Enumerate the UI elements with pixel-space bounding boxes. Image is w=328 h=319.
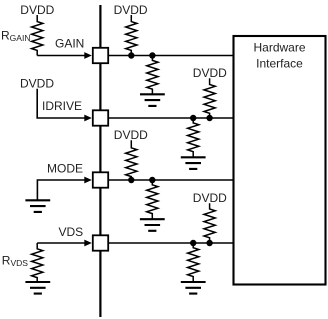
svg-text:RVDS: RVDS	[2, 254, 28, 269]
junction VDS pull-up	[206, 240, 212, 246]
resistor IDRIVE pull-down	[188, 118, 199, 157]
wire IDRIVE to hardware interface	[100, 117, 233, 119]
resistor R_GAIN	[32, 15, 43, 56]
pin box GAIN	[93, 48, 108, 63]
svg-text:DVDD: DVDD	[193, 191, 227, 205]
ground (VDS pull-down)	[181, 282, 206, 294]
wire vertical bus	[99, 5, 101, 317]
junction IDRIVE pull-up	[206, 115, 212, 121]
junction GAIN pull-up	[128, 52, 134, 58]
wire MODE input	[37, 180, 85, 200]
svg-text:RGAIN: RGAIN	[1, 29, 30, 44]
svg-text:DVDD: DVDD	[20, 77, 54, 91]
arrow into GAIN pin	[84, 52, 92, 59]
resistor MODE pull-up	[126, 140, 137, 180]
wire IDRIVE input	[37, 89, 85, 118]
junction IDRIVE pull-down	[190, 115, 196, 121]
svg-text:DVDD: DVDD	[20, 3, 54, 17]
arrow into VDS pin	[84, 240, 92, 247]
resistor GAIN pull-up	[126, 15, 137, 56]
svg-text:DVDD: DVDD	[114, 128, 148, 142]
hardware interface block U1	[234, 36, 326, 285]
svg-text:Hardware: Hardware	[253, 41, 305, 55]
pin box VDS	[93, 235, 108, 250]
ground (GAIN pull-down)	[140, 94, 165, 106]
resistor VDS pull-down	[188, 243, 199, 282]
arrow into MODE pin	[84, 177, 92, 184]
wire VDS to hardware interface	[100, 242, 233, 244]
wire GAIN input	[37, 55, 85, 57]
svg-text:DVDD: DVDD	[193, 66, 227, 80]
wire VDS input	[37, 242, 85, 244]
arrow into IDRIVE pin	[84, 115, 92, 122]
junction MODE pull-down	[149, 177, 155, 183]
wire GAIN to hardware interface	[100, 55, 233, 57]
ground (IDRIVE pull-down)	[181, 157, 206, 169]
pin box IDRIVE	[93, 110, 108, 125]
svg-text:IDRIVE: IDRIVE	[42, 99, 82, 113]
ground (MODE tie)	[25, 200, 50, 212]
wire MODE to hardware interface	[100, 179, 233, 181]
svg-text:MODE: MODE	[47, 162, 83, 176]
resistor GAIN pull-down	[147, 56, 158, 95]
resistor R_VDS	[32, 243, 43, 282]
ground (R_VDS)	[25, 282, 50, 294]
svg-text:DVDD: DVDD	[114, 3, 148, 17]
junction MODE pull-up	[128, 177, 134, 183]
pin box MODE	[93, 172, 108, 187]
junction GAIN pull-down	[149, 52, 155, 58]
svg-text:VDS: VDS	[59, 225, 84, 239]
resistor MODE pull-down	[147, 180, 158, 219]
junction VDS pull-down	[190, 240, 196, 246]
svg-text:Interface: Interface	[256, 56, 303, 70]
ground (MODE pull-down)	[140, 219, 165, 231]
resistor IDRIVE pull-up	[204, 78, 215, 118]
svg-text:GAIN: GAIN	[55, 36, 84, 50]
resistor VDS pull-up	[204, 203, 215, 243]
